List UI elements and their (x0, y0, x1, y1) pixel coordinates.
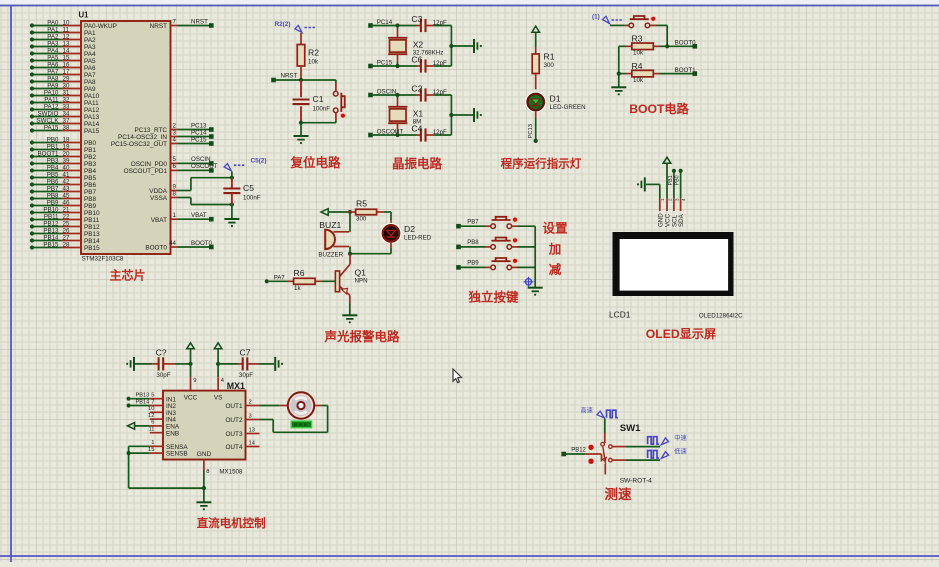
motor M rotary (279, 392, 321, 427)
pin PA3 (pin 13) with wire and node dot (30, 40, 96, 51)
svg-text:29: 29 (63, 75, 70, 82)
svg-text:LED-GREEN: LED-GREEN (550, 104, 586, 111)
ground sideways (473, 108, 475, 122)
pin OSCIN_PD0 (pin 5) with terminal (131, 156, 214, 168)
ground below C5 (224, 218, 239, 220)
svg-text:PB5: PB5 (47, 171, 59, 178)
wire OLED VCC pin (666, 164, 668, 199)
MX1 pin OUT4 (14) stub (225, 440, 259, 451)
node collector junction (348, 252, 352, 256)
svg-text:PB14: PB14 (136, 399, 150, 405)
led D1 LED-GREEN (526, 92, 586, 111)
pin PA7 (pin 17) with wire and node dot (30, 68, 96, 79)
wire boot button right to R3 node (650, 25, 667, 46)
svg-text:12: 12 (63, 33, 70, 40)
resistor R3 10k (619, 34, 693, 57)
capacitor C2 12pF (417, 94, 422, 96)
wire power to R5 (327, 211, 348, 213)
svg-text:10k: 10k (633, 50, 644, 57)
svg-text:PA6: PA6 (84, 65, 96, 72)
pin PA9 (pin 30) with wire and node dot (30, 82, 96, 93)
svg-text:OSCIN_PD0: OSCIN_PD0 (131, 161, 168, 168)
svg-text:PB4: PB4 (84, 168, 97, 175)
wire switch mid contact (612, 446, 660, 448)
svg-text:独立按键: 独立按键 (467, 290, 519, 305)
svg-text:15: 15 (63, 54, 70, 61)
svg-text:PA2: PA2 (84, 37, 96, 44)
svg-text:PB7: PB7 (467, 220, 479, 226)
pin PA1 (pin 11) with wire and node dot (30, 26, 96, 37)
svg-text:BOOT1: BOOT1 (38, 150, 60, 157)
wire BUZ1 top to node (349, 212, 351, 232)
terminal dot PC13 (534, 139, 538, 143)
svg-text:8: 8 (173, 190, 177, 197)
power arrow indicator (532, 26, 540, 32)
pin PA11 (pin 32) with wire and node dot (30, 96, 99, 107)
wire emitter to ground (349, 303, 351, 315)
power arrow OLED VCC (663, 157, 671, 163)
pin PC14 (pin 3) with terminal (118, 129, 214, 141)
svg-text:MX1: MX1 (227, 381, 245, 391)
svg-text:25: 25 (63, 220, 70, 227)
svg-text:PA14: PA14 (84, 121, 100, 128)
resistor R6 1k (269, 268, 335, 292)
svg-text:19: 19 (63, 143, 70, 150)
pin VSSA (pin 8) (150, 190, 178, 202)
svg-text:16: 16 (63, 61, 70, 68)
svg-text:SW-ROT-4: SW-ROT-4 (620, 477, 652, 484)
svg-text:OUT2: OUT2 (225, 417, 242, 424)
svg-text:PB6: PB6 (84, 182, 97, 189)
svg-text:PB2: PB2 (84, 154, 97, 161)
svg-text:12pF: 12pF (433, 89, 447, 96)
sheet border bottom (0, 555, 939, 557)
pin PA0 (pin 10) with wire and node dot (30, 19, 117, 30)
svg-text:13: 13 (63, 40, 70, 47)
svg-text:PB3: PB3 (84, 161, 97, 168)
wire ENA arrow (134, 425, 150, 427)
pin PB3 (pin 39) with wire and node dot (30, 157, 97, 168)
wire VS arrow to node (217, 349, 219, 364)
svg-text:LCD1: LCD1 (609, 309, 631, 319)
pushbutton PB8 (491, 238, 518, 250)
terminal OSCOUT (368, 133, 373, 138)
node crystal bottom junction (395, 64, 399, 68)
wire C1 to ground (300, 123, 302, 136)
wire OLED GND pin (646, 184, 660, 198)
svg-text:12pF: 12pF (433, 19, 447, 26)
capacitor C6 12pF (417, 65, 422, 67)
capacitor C? 30pF (134, 347, 191, 378)
svg-text:11: 11 (148, 427, 154, 433)
svg-text:OUT4: OUT4 (225, 444, 242, 451)
svg-text:OUT3: OUT3 (225, 431, 242, 438)
svg-text:VBAT: VBAT (191, 212, 207, 219)
svg-text:SW1: SW1 (620, 423, 641, 434)
svg-text:PB8: PB8 (47, 192, 59, 199)
pin VDDA (pin 9) (149, 183, 177, 195)
wire sense rail to ground node (129, 487, 204, 489)
wire VDDA to C5 top (178, 178, 232, 191)
svg-text:38: 38 (63, 124, 70, 131)
reset pushbutton (333, 80, 345, 123)
svg-text:VDDA: VDDA (149, 188, 167, 195)
svg-text:BUZZER: BUZZER (318, 252, 343, 259)
ground sideways OLED (644, 177, 646, 191)
svg-text:Q1: Q1 (355, 268, 367, 278)
svg-text:C?: C? (156, 347, 167, 357)
svg-text:PA15: PA15 (44, 124, 59, 131)
svg-text:R6: R6 (294, 268, 305, 278)
capacitor C5 100nF (223, 172, 260, 205)
wire button PB8 to rail (511, 246, 535, 248)
generator 中速 pulse (648, 434, 687, 445)
wire OLED SCL pin (673, 172, 675, 199)
terminal BOOT0 (693, 44, 698, 49)
svg-text:PA12: PA12 (44, 103, 59, 110)
svg-text:R4: R4 (632, 61, 643, 71)
svg-text:PC14: PC14 (191, 129, 207, 136)
svg-text:C1: C1 (313, 94, 324, 104)
svg-text:PB0: PB0 (84, 140, 97, 147)
pin PA4 (pin 14) with wire and node dot (30, 47, 96, 58)
pin PB6 (pin 42) with wire and node dot (30, 178, 97, 189)
pin NRST (pin 7) with terminal (150, 18, 214, 30)
pin PA12 (pin 33) with wire and node dot (30, 103, 100, 114)
svg-text:5: 5 (151, 393, 154, 399)
pin PA10 (pin 31) with wire and node dot (30, 89, 100, 100)
svg-text:34: 34 (63, 110, 70, 117)
pin SWDIO (pin 34) with wire and node dot (30, 110, 100, 121)
pin PB7 (pin 43) with wire and node dot (30, 185, 97, 196)
svg-text:C5: C5 (243, 183, 254, 193)
terminal NRST (271, 78, 276, 83)
wire rail to ground (618, 74, 620, 87)
svg-text:SENSB: SENSB (166, 451, 188, 458)
svg-text:PB15: PB15 (84, 245, 100, 252)
svg-text:PB15: PB15 (43, 241, 59, 248)
svg-text:PA9: PA9 (84, 86, 96, 93)
wire D1 to PC13 terminal (535, 112, 537, 140)
svg-text:12pF: 12pF (433, 129, 447, 136)
pin PB15 (pin 28) with wire and node dot (30, 241, 100, 252)
svg-text:27: 27 (63, 234, 70, 241)
svg-text:9: 9 (193, 378, 196, 384)
pin SWCLK (pin 37) with wire and node dot (30, 117, 100, 128)
svg-text:SWCLK: SWCLK (36, 117, 59, 124)
svg-text:8: 8 (206, 469, 209, 475)
svg-text:PA3: PA3 (47, 40, 59, 47)
svg-text:46: 46 (63, 199, 70, 206)
switch SW1 SW-ROT-4 (588, 423, 652, 484)
pin PA15 (pin 38) with wire and node dot (30, 124, 100, 135)
node crystal top junction (395, 93, 399, 97)
MX1 pin OUT2 (3) stub (225, 413, 259, 424)
pin PA8 (pin 29) with wire and node dot (30, 75, 96, 86)
svg-text:(1): (1) (592, 14, 600, 21)
svg-text:PB14: PB14 (84, 238, 100, 245)
svg-text:PA1: PA1 (47, 26, 59, 33)
svg-text:程序运行指示灯: 程序运行指示灯 (501, 157, 582, 171)
pin PB0 (pin 18) with wire and node dot (30, 136, 97, 147)
crystal X1 8M (397, 95, 399, 98)
svg-text:PB1: PB1 (47, 143, 59, 150)
svg-text:X2: X2 (413, 40, 424, 50)
svg-text:SDA: SDA (678, 213, 685, 227)
power arrow ENA (127, 423, 134, 430)
svg-text:SWDIO: SWDIO (38, 110, 59, 117)
pushbutton PB7 (491, 217, 518, 229)
terminal PB8 (456, 245, 461, 250)
node crystal top junction (395, 23, 399, 27)
svg-text:10k: 10k (308, 59, 319, 66)
crystal X2 32.768KHz (397, 26, 399, 29)
wire SENSA loop (129, 446, 150, 488)
ground Q1 (342, 314, 357, 316)
buzzer BUZ1 (318, 220, 349, 259)
pin VBAT (pin 1) with terminal (151, 212, 214, 224)
svg-text:PB9: PB9 (47, 199, 59, 206)
wire PB14 to IN2 (129, 405, 150, 407)
svg-text:PB11: PB11 (84, 217, 100, 224)
svg-text:14: 14 (249, 440, 256, 446)
svg-text:12: 12 (148, 413, 154, 419)
svg-text:30: 30 (63, 82, 70, 89)
marker R2(2) blue pointer (275, 21, 317, 33)
svg-text:PA2: PA2 (47, 33, 59, 40)
power arrow alarm (321, 209, 328, 216)
svg-text:PC15: PC15 (191, 136, 207, 143)
svg-text:PB1: PB1 (84, 147, 97, 154)
svg-text:设置: 设置 (542, 221, 568, 236)
pin PB9 (pin 46) with wire and node dot (30, 199, 97, 210)
wire OLED SDA pin (680, 172, 682, 199)
node crystal bottom junction (395, 133, 399, 137)
node C5 top junction (230, 176, 234, 180)
svg-text:45: 45 (63, 192, 70, 199)
svg-text:NRST: NRST (150, 23, 167, 30)
ground sideways C7 right (274, 357, 276, 371)
svg-text:3: 3 (674, 198, 679, 201)
svg-text:BOOT0: BOOT0 (675, 40, 697, 47)
svg-text:PB12: PB12 (84, 224, 100, 231)
power arrow VS MX1 (214, 343, 222, 349)
wire VS node to pin 4 (218, 364, 225, 391)
wire D2 to bottom rail (350, 242, 391, 254)
svg-text:R3: R3 (632, 34, 643, 44)
wire crystal caps right rail (450, 95, 452, 135)
generator 低速 pulse (648, 448, 687, 459)
MX1 pin IN1 (5) stub (150, 393, 177, 404)
svg-text:直流电机控制: 直流电机控制 (197, 516, 266, 530)
wire switch top branch (604, 419, 606, 444)
pin BOOT1 (pin 20) with wire and node dot (30, 150, 97, 161)
terminal dot PB14 (127, 403, 131, 407)
svg-text:6: 6 (173, 163, 177, 170)
boot pushbutton (629, 16, 656, 28)
svg-text:BOOT电路: BOOT电路 (629, 101, 689, 116)
pin PA6 (pin 16) with wire and node dot (30, 61, 96, 72)
node C5 bottom junction (230, 202, 234, 206)
wire switch low contact (612, 459, 660, 461)
node SDA top dot (679, 169, 683, 173)
power arrow VCC MX1 (187, 343, 195, 349)
svg-text:4: 4 (173, 136, 177, 143)
svg-text:100nF: 100nF (243, 195, 261, 202)
svg-text:C5(2): C5(2) (251, 158, 267, 165)
OLED pin stubs 1-4 (660, 198, 686, 211)
svg-text:STM32F103C8: STM32F103C8 (82, 256, 125, 263)
svg-text:PB12: PB12 (43, 220, 59, 227)
wire to side ground (451, 114, 473, 116)
MX1 pin IN2 (7) stub (150, 399, 177, 410)
MX1 pin OUT1 (2) stub (225, 399, 259, 410)
svg-text:BOOT0: BOOT0 (191, 240, 213, 247)
wire VSSA to C5 bottom (178, 198, 232, 205)
svg-text:PA4: PA4 (84, 51, 96, 58)
svg-text:PA7: PA7 (47, 68, 59, 75)
svg-text:PB8: PB8 (467, 240, 479, 246)
svg-text:BOOT1: BOOT1 (675, 67, 697, 74)
wire GND to ground (203, 488, 205, 502)
MX1 pin ENA (6) stub (150, 420, 180, 431)
svg-text:BOOT0: BOOT0 (145, 245, 167, 252)
svg-text:300: 300 (544, 62, 555, 69)
wire OSCIN (373, 94, 417, 96)
node SCL top dot (672, 169, 676, 173)
svg-text:PA8: PA8 (84, 79, 96, 86)
capacitor C7 30pF (218, 347, 274, 378)
node VS junction (216, 362, 220, 366)
ground MX1 (196, 501, 211, 503)
svg-text:PA5: PA5 (84, 58, 96, 65)
wire OUT2 to motor loop (260, 406, 328, 433)
wire OUT1 to motor (260, 405, 280, 407)
svg-text:PB9: PB9 (84, 203, 97, 210)
pin PA2 (pin 12) with wire and node dot (30, 33, 96, 44)
svg-text:300: 300 (356, 216, 367, 223)
svg-text:VSSA: VSSA (150, 195, 168, 202)
pin PB14 (pin 27) with wire and node dot (30, 234, 100, 245)
svg-text:1k: 1k (294, 285, 301, 292)
pin PB5 (pin 41) with wire and node dot (30, 171, 97, 182)
terminal PB7 (456, 224, 461, 229)
svg-text:31: 31 (63, 89, 70, 96)
svg-text:OLED12864I2C: OLED12864I2C (699, 312, 743, 319)
svg-text:NRST: NRST (281, 73, 298, 80)
svg-text:D1: D1 (550, 94, 561, 104)
svg-text:VBAT: VBAT (151, 217, 167, 224)
svg-text:PA7: PA7 (274, 275, 286, 281)
svg-text:PB8: PB8 (84, 196, 97, 203)
pin PB10 (pin 21) with wire and node dot (30, 206, 100, 217)
pushbutton PB9 (491, 258, 518, 270)
svg-text:PA3: PA3 (84, 44, 96, 51)
capacitor C3 12pF (417, 25, 422, 27)
svg-text:GND: GND (197, 451, 212, 458)
pin PC13 (pin 2) with terminal (134, 122, 213, 134)
svg-text:PB6: PB6 (47, 178, 59, 185)
svg-text:43: 43 (63, 185, 70, 192)
svg-text:12pF: 12pF (433, 60, 447, 67)
ground keys (528, 287, 543, 289)
MX1 pin IN3 (10) stub (148, 406, 176, 417)
pin PB13 (pin 26) with wire and node dot (30, 227, 100, 238)
svg-text:40: 40 (63, 164, 70, 171)
svg-text:PA7: PA7 (84, 72, 96, 79)
svg-text:U1: U1 (79, 11, 90, 20)
wire PB12 red link (585, 453, 601, 455)
terminal PB12 (561, 452, 566, 457)
svg-text:1: 1 (151, 440, 154, 446)
svg-text:PA10: PA10 (44, 89, 59, 96)
mouse cursor (453, 369, 462, 383)
node GND junction (202, 486, 206, 490)
svg-text:MX1508: MX1508 (219, 469, 243, 476)
svg-text:PA8: PA8 (47, 75, 59, 82)
terminal dot PA7 (265, 279, 269, 283)
svg-text:测速: 测速 (605, 486, 633, 502)
svg-text:6: 6 (151, 420, 154, 426)
svg-text:14: 14 (63, 47, 70, 54)
svg-text:7: 7 (173, 18, 177, 25)
svg-text:26: 26 (63, 227, 70, 234)
svg-text:PA4: PA4 (47, 47, 59, 54)
svg-text:C6: C6 (411, 55, 422, 65)
svg-text:13: 13 (249, 427, 255, 433)
svg-text:PA6: PA6 (47, 61, 59, 68)
svg-text:PB0: PB0 (47, 136, 59, 143)
wire NRST horizontal (276, 79, 336, 81)
wire C5 to ground (231, 205, 233, 219)
wire SENSB (129, 452, 150, 454)
wire PC15 (373, 65, 417, 67)
wire R3 to R4 left rail (618, 46, 620, 73)
svg-text:PB13: PB13 (84, 231, 100, 238)
generator 高速 pulse (581, 406, 618, 418)
wire crystal caps right rail (450, 26, 452, 67)
svg-text:10: 10 (63, 19, 70, 26)
svg-text:ENB: ENB (166, 430, 179, 437)
svg-text:R2: R2 (308, 48, 319, 58)
node SENSB junction (127, 451, 131, 455)
svg-text:OSCOUT: OSCOUT (191, 163, 218, 170)
resistor R2 10k (297, 33, 319, 80)
svg-text:X1: X1 (413, 109, 424, 119)
svg-text:VS: VS (214, 394, 223, 401)
svg-text:R5: R5 (356, 199, 367, 209)
svg-text:10k: 10k (633, 77, 644, 84)
svg-text:PB9: PB9 (467, 261, 479, 267)
MX1 chip body MX1508 (163, 391, 246, 460)
svg-text:C2: C2 (411, 84, 422, 94)
svg-text:NRST: NRST (191, 18, 208, 25)
wire PB13 to IN1 (129, 398, 150, 400)
resistor R1 300 (532, 47, 555, 89)
node R4 left junction (617, 72, 621, 76)
svg-text:PB3: PB3 (47, 157, 59, 164)
svg-text:39: 39 (63, 157, 70, 164)
svg-text:复位电路: 复位电路 (289, 155, 341, 170)
wire GND pin to rail (203, 471, 205, 489)
svg-text:R2(2): R2(2) (275, 21, 291, 28)
marker C5(2) blue pointer (224, 158, 266, 171)
svg-text:PB4: PB4 (47, 164, 59, 171)
svg-text:PA9: PA9 (47, 82, 59, 89)
svg-text:LED-RED: LED-RED (404, 235, 432, 242)
svg-text:PA11: PA11 (84, 100, 99, 107)
svg-text:R1: R1 (544, 52, 555, 62)
